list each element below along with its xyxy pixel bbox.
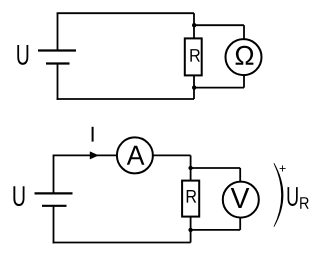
- label ohm symbol inside ohmmeter: [236, 46, 254, 65]
- wire: bottom circuit right vertical into resistor: [190, 155, 192, 181]
- voltmeter: circle: [223, 182, 259, 218]
- wire: top circuit right vertical out of resistor R: [193, 74, 195, 99]
- wire: top circuit left vertical lower: [57, 64, 59, 100]
- wire: ohmmeter branch right vertical upper: [243, 25, 245, 40]
- wire: bottom circuit left vertical lower: [53, 206, 55, 244]
- wire: voltmeter branch bottom horizontal: [191, 229, 241, 231]
- label V inside voltmeter: [231, 188, 250, 208]
- battery U bottom circuit: long plate: [35, 192, 73, 194]
- label I: current: [92, 127, 94, 142]
- wire: bottom circuit top horizontal to ammeter: [53, 154, 118, 156]
- label U: bottom circuit source voltage: [13, 186, 24, 206]
- resistor R (bottom circuit) box: [182, 181, 199, 217]
- wire: top circuit right vertical into resistor R: [193, 13, 195, 39]
- label U: top circuit source voltage: [17, 45, 28, 65]
- wire: voltmeter branch right vertical upper: [239, 168, 241, 183]
- current arrow I on top wire: [90, 151, 99, 159]
- wire: voltmeter branch top horizontal: [191, 167, 241, 169]
- wire: ohmmeter branch right vertical lower: [243, 74, 245, 88]
- resistor R (top circuit) box: [185, 38, 202, 75]
- bracket: voltage UR parenthesis: [274, 163, 283, 227]
- battery U top circuit: short plate: [46, 62, 70, 64]
- wire: voltmeter branch right vertical lower: [239, 217, 241, 230]
- label A inside ammeter: [127, 146, 145, 165]
- node: junction dot top (bottom circuit): [188, 166, 192, 170]
- battery U top circuit: long plate: [38, 49, 76, 51]
- wire: bottom circuit left vertical upper: [53, 155, 55, 193]
- wire: bottom circuit top horizontal from ammeter to corner: [152, 154, 191, 156]
- ammeter: circle: [117, 137, 153, 173]
- label R: resistor top circuit: [190, 49, 200, 62]
- wire: bottom circuit bottom horizontal: [53, 242, 191, 244]
- ohmmeter: circle: [226, 39, 262, 75]
- wire: ohmmeter branch bottom horizontal: [194, 87, 244, 89]
- label R subscript of UR: [300, 197, 309, 209]
- label R: resistor bottom circuit: [187, 190, 197, 203]
- battery U bottom circuit: short plate: [42, 205, 67, 207]
- wire: top circuit left vertical upper: [57, 13, 59, 50]
- node: junction dot top (top circuit): [192, 23, 196, 27]
- wire: ohmmeter branch top horizontal: [194, 24, 244, 26]
- label plus: polarity sign: [280, 165, 286, 171]
- node: junction dot bottom (top circuit): [192, 85, 196, 89]
- wire: top circuit top horizontal: [57, 12, 194, 14]
- wire: top circuit bottom horizontal: [57, 98, 194, 100]
- label U of UR voltage across resistor: [288, 187, 298, 206]
- wire: bottom circuit right vertical out of resistor: [190, 216, 192, 243]
- node: junction dot bottom (bottom circuit): [188, 228, 192, 232]
